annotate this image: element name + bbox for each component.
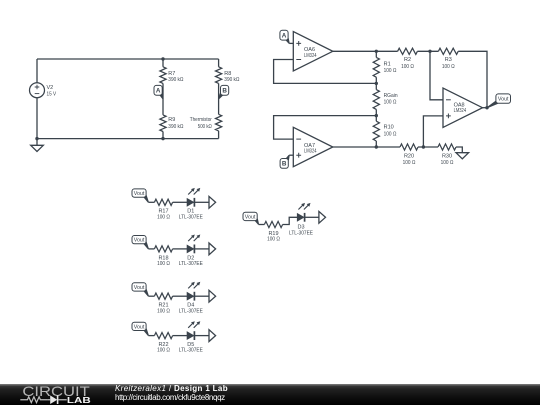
- logo wire with resistor: [20, 397, 47, 403]
- junction chain top: [375, 50, 378, 53]
- resistor R3: [438, 48, 458, 70]
- wire V2 bottom lead: [36, 98, 38, 146]
- wire R17 to D1: [173, 201, 187, 203]
- logo text LAB: [67, 395, 91, 405]
- junction chain bottom: [375, 145, 378, 148]
- wire OA7 feedback: [274, 116, 377, 140]
- svg-text:LM324: LM324: [304, 149, 317, 155]
- resistor R9: [160, 115, 184, 132]
- resistor R30: [438, 144, 456, 166]
- svg-text:Vout: Vout: [134, 324, 145, 330]
- svg-text:100 Ω: 100 Ω: [157, 308, 170, 314]
- wire R22 to D5: [173, 335, 187, 337]
- wire row R19 left: [259, 224, 265, 226]
- Vout flag (row R17): [132, 189, 149, 203]
- svg-text:390 kΩ: 390 kΩ: [224, 77, 239, 83]
- resistor R19: [264, 221, 282, 242]
- LED D3: [289, 203, 313, 236]
- CircuitLab logo text CIRCUIT: [22, 384, 90, 399]
- svg-text:500 kΩ: 500 kΩ: [198, 124, 212, 130]
- wire D2 to port: [194, 248, 209, 250]
- wire right branch upper: [218, 59, 220, 67]
- wire row R21 left: [148, 295, 154, 297]
- svg-text:100 Ω: 100 Ω: [403, 160, 416, 166]
- wire chain RGain-R10: [375, 109, 377, 121]
- footer bar: [0, 384, 540, 405]
- wire chain bottom: [375, 141, 377, 147]
- wire row R18 left: [148, 248, 154, 250]
- resistor R2: [398, 48, 418, 70]
- svg-text:100 Ω: 100 Ω: [441, 160, 454, 166]
- svg-text:V2: V2: [47, 85, 54, 91]
- op-amp OA6: [293, 32, 333, 71]
- resistor R20: [400, 144, 418, 166]
- svg-text:Vout: Vout: [134, 285, 145, 291]
- Vout flag (row R19): [243, 212, 259, 225]
- wire chain R1-RGain: [375, 77, 377, 89]
- node A flag (amp input): [280, 30, 290, 43]
- wire D3 to port: [305, 216, 319, 218]
- op-amp OA7: [293, 127, 333, 166]
- thermistor RTH 500k: [190, 114, 222, 131]
- svg-text:A: A: [282, 32, 287, 39]
- svg-text:100 Ω: 100 Ω: [384, 68, 397, 74]
- svg-text:100 Ω: 100 Ω: [267, 237, 280, 243]
- wire R30 to ground: [456, 147, 462, 153]
- svg-text:390 kΩ: 390 kΩ: [168, 77, 183, 83]
- svg-text:100 Ω: 100 Ω: [384, 131, 397, 137]
- wire left branch lower: [162, 132, 164, 139]
- svg-text:RGain: RGain: [384, 93, 398, 99]
- svg-text:100 Ω: 100 Ω: [401, 64, 414, 70]
- svg-text:B: B: [282, 161, 287, 168]
- wire OA7 + input stub: [289, 154, 293, 156]
- svg-text:100 Ω: 100 Ω: [442, 64, 455, 70]
- resistor R7: [160, 67, 184, 84]
- svg-text:100 Ω: 100 Ω: [384, 100, 397, 106]
- port terminal (row R19): [319, 211, 326, 223]
- junction output node: [485, 106, 488, 109]
- wire chain top: [375, 51, 377, 57]
- wire bottom rail: [37, 138, 219, 140]
- svg-text:15 V: 15 V: [47, 91, 57, 97]
- wire R3 to output: [458, 51, 487, 107]
- junction chain R1-RGain: [375, 82, 378, 85]
- LED D1: [179, 188, 203, 220]
- svg-text:Thermistor: Thermistor: [190, 117, 212, 123]
- Vout flag (row R22): [132, 322, 149, 336]
- Vout flag (row R18): [132, 236, 149, 250]
- Vout flag (amp output): [487, 94, 511, 108]
- wire right branch middle: [218, 83, 220, 114]
- node B flag (bridge): [218, 85, 229, 99]
- resistor R8: [216, 67, 240, 84]
- wire D4 to port: [194, 295, 209, 297]
- svg-text:R30: R30: [442, 154, 452, 160]
- port terminal (row R22): [209, 330, 216, 342]
- wire V2 top lead: [36, 59, 38, 83]
- svg-text:R9: R9: [168, 117, 175, 123]
- svg-text:A: A: [156, 87, 161, 94]
- resistor R21: [154, 293, 172, 314]
- junction at V2 bottom: [35, 137, 38, 140]
- wire OA8 - input: [430, 51, 443, 100]
- wire D1 to port: [194, 201, 209, 203]
- svg-text:LM324: LM324: [454, 108, 467, 114]
- wire left branch middle: [162, 83, 164, 115]
- junction OA8 + on R20 row: [422, 145, 425, 148]
- LED D4: [179, 282, 203, 314]
- wire row R22 left: [148, 335, 154, 337]
- svg-text:LAB: LAB: [67, 395, 91, 405]
- svg-text:R1: R1: [384, 61, 391, 67]
- wire left branch upper: [162, 59, 164, 67]
- resistor R17: [154, 199, 172, 220]
- svg-text:100 Ω: 100 Ω: [157, 348, 170, 354]
- wire OA7 output: [333, 146, 400, 148]
- footer title text: [115, 384, 535, 403]
- junction bottom-left rail: [161, 137, 164, 140]
- resistor RGain: [373, 90, 397, 110]
- voltage source V2: [30, 83, 57, 98]
- svg-text:LTL-307EE: LTL-307EE: [179, 214, 203, 220]
- svg-text:Vout: Vout: [134, 191, 145, 197]
- svg-text:R20: R20: [404, 154, 414, 160]
- wire D5 to port: [194, 335, 209, 337]
- wire top rail: [37, 58, 219, 60]
- wire OA6 feedback: [274, 60, 377, 84]
- wire right branch lower: [218, 131, 220, 139]
- op-amp OA8: [443, 88, 483, 127]
- junction chain RGain-R10: [375, 114, 378, 117]
- svg-text:100 Ω: 100 Ω: [157, 261, 170, 267]
- node A flag (bridge): [154, 85, 164, 99]
- resistor R1: [373, 57, 396, 77]
- wire R20-R30: [418, 146, 438, 148]
- node B flag (amp input): [280, 155, 290, 168]
- logo diode: [48, 395, 67, 404]
- svg-text:100 Ω: 100 Ω: [157, 214, 170, 220]
- Vout flag (row R21): [132, 283, 149, 297]
- svg-text:R10: R10: [384, 125, 394, 131]
- svg-text:Vout: Vout: [134, 238, 145, 244]
- wire OA8 output: [483, 107, 488, 109]
- svg-text:LTL-307EE: LTL-307EE: [179, 261, 203, 267]
- wire R21 to D4: [173, 295, 187, 297]
- svg-text:390 kΩ: 390 kΩ: [168, 124, 183, 130]
- wire OA6 output: [333, 50, 398, 52]
- wire OA8 + input: [423, 116, 443, 147]
- wire R19 jog to D3: [283, 217, 298, 224]
- svg-text:R2: R2: [404, 57, 411, 63]
- wire R18 to D2: [173, 248, 187, 250]
- LED D5: [179, 321, 203, 353]
- wire R2-R3: [417, 50, 438, 52]
- ground under V2: [31, 145, 44, 151]
- svg-text:Vout: Vout: [245, 214, 256, 220]
- port terminal (row R17): [209, 196, 216, 208]
- ground near R30: [456, 153, 469, 159]
- svg-text:LTL-307EE: LTL-307EE: [179, 308, 203, 314]
- svg-text:Vout: Vout: [498, 97, 509, 103]
- svg-text:LTL-307EE: LTL-307EE: [289, 230, 313, 236]
- svg-text:LM324: LM324: [304, 53, 317, 59]
- wire row R17 left: [148, 201, 154, 203]
- resistor R10: [373, 121, 396, 141]
- svg-text:R3: R3: [445, 57, 452, 63]
- svg-text:B: B: [222, 87, 227, 94]
- LED D2: [179, 235, 203, 267]
- resistor R22: [154, 333, 172, 354]
- resistor R18: [154, 246, 172, 267]
- junction top-left rail: [161, 57, 164, 60]
- junction R2-R3 node: [428, 50, 431, 53]
- svg-text:LTL-307EE: LTL-307EE: [179, 348, 203, 354]
- port terminal (row R21): [209, 290, 216, 302]
- port terminal (row R18): [209, 243, 216, 255]
- wire OA6 + input stub: [289, 42, 293, 44]
